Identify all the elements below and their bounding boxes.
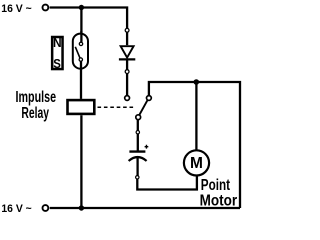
switch S2 blade	[139, 100, 147, 115]
diode D1 triangle	[121, 46, 134, 57]
svg-text:Relay: Relay	[21, 105, 49, 122]
diode D1 terminal lower	[125, 70, 129, 74]
wire motor top lead	[195, 82, 197, 150]
terminal T2 (bottom supply terminal)	[43, 205, 49, 211]
terminal T1 (top supply terminal)	[43, 5, 49, 11]
wire capacitor lower lead	[136, 158, 138, 176]
switch S2 pole pivot	[136, 115, 141, 120]
reed bottom contact	[79, 58, 82, 61]
relay coil K1 box	[68, 100, 95, 114]
wire diode lower lead	[126, 59, 128, 69]
reed top contact	[79, 42, 82, 45]
motor M1 body	[184, 150, 209, 175]
switch S2 left contact	[125, 96, 130, 101]
wire bottom rail	[50, 207, 240, 209]
capacitor C1 polarity plus	[145, 145, 149, 149]
wire diode upper lead	[126, 32, 128, 45]
svg-text:N: N	[53, 35, 62, 50]
reed blade	[75, 47, 80, 60]
capacitor C1 curved plate	[129, 157, 147, 161]
capacitor C1 positive plate	[129, 150, 145, 152]
wire reed branch drop	[80, 8, 82, 42]
capacitor terminal lower	[136, 176, 139, 179]
dashed mechanical link relay to switch	[98, 106, 135, 108]
switch S2 right contact	[147, 96, 152, 101]
wire reed top lead inside envelope	[80, 31, 82, 42]
node junction bottom (relay branch tap)	[79, 205, 84, 210]
wire to switch left contact	[126, 74, 128, 96]
svg-text:16 V ~: 16 V ~	[1, 3, 32, 15]
wire top rail with corner to diode branch	[50, 8, 128, 29]
wire capacitor upper lead	[137, 134, 139, 152]
svg-text:S: S	[53, 56, 61, 71]
svg-text:M: M	[190, 155, 203, 172]
svg-text:Point: Point	[201, 177, 231, 194]
wire right contact riser, top-right rail and right drop	[149, 82, 240, 208]
capacitor terminal upper	[136, 131, 139, 134]
svg-text:16 V ~: 16 V ~	[1, 203, 32, 215]
wire reed bottom lead to relay coil	[80, 61, 82, 99]
wire relay coil to bottom rail	[80, 115, 82, 208]
wire pole to capacitor	[137, 119, 139, 130]
magnet (N/S bar)	[52, 37, 62, 69]
wire capacitor to motor bottom	[137, 177, 197, 190]
diode D1 terminal upper	[125, 28, 129, 32]
node junction motor top tap	[194, 79, 200, 85]
diode D1 cathode bar	[119, 58, 135, 60]
svg-text:Impulse: Impulse	[16, 89, 57, 106]
reed switch S1 envelope	[73, 34, 88, 69]
node junction top (reed branch tap)	[79, 5, 84, 10]
